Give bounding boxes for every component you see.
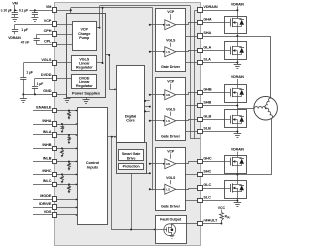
svg-text:nFAULT: nFAULT: [203, 218, 218, 222]
svg-text:PU: PU: [227, 216, 231, 219]
svg-text:SLB: SLB: [203, 126, 211, 130]
svg-text:VCP: VCP: [167, 149, 175, 153]
svg-text:GLC: GLC: [203, 183, 211, 187]
svg-text:SLC: SLC: [203, 195, 211, 199]
svg-text:VCP: VCP: [167, 10, 175, 14]
svg-text:47 nF: 47 nF: [21, 40, 30, 44]
svg-text:GHC: GHC: [203, 156, 212, 160]
svg-text:VGLS: VGLS: [41, 58, 52, 62]
svg-text:Regulator: Regulator: [76, 84, 93, 88]
svg-text:GLB: GLB: [203, 114, 211, 118]
svg-text:INHC: INHC: [42, 169, 51, 173]
svg-text:HS: HS: [166, 93, 170, 97]
svg-text:HS: HS: [166, 23, 170, 27]
svg-text:VCP: VCP: [44, 19, 52, 23]
svg-text:Regulator: Regulator: [76, 65, 93, 69]
svg-text:VDS: VDS: [44, 210, 52, 214]
svg-text:Gate Driver: Gate Driver: [161, 65, 181, 69]
svg-text:Drive: Drive: [127, 156, 136, 160]
svg-text:VGLS: VGLS: [166, 108, 176, 112]
svg-text:VDRAIN: VDRAIN: [231, 75, 245, 79]
svg-text:GHA: GHA: [203, 17, 212, 21]
svg-text:1 µF: 1 µF: [37, 82, 44, 86]
svg-text:VGLS: VGLS: [166, 176, 176, 180]
svg-text:INHA: INHA: [42, 119, 51, 123]
svg-text:MODE: MODE: [40, 194, 52, 198]
svg-text:SHB: SHB: [203, 100, 211, 104]
svg-text:INHB: INHB: [42, 143, 51, 147]
svg-text:LS: LS: [166, 50, 170, 54]
svg-text:Gate Driver: Gate Driver: [161, 135, 181, 139]
svg-text:LS: LS: [166, 119, 170, 123]
svg-text:VM: VM: [12, 1, 18, 5]
svg-text:Pump: Pump: [79, 36, 90, 40]
svg-text:CPH: CPH: [44, 29, 52, 33]
svg-text:SHA: SHA: [203, 31, 211, 35]
svg-text:VDRAIN: VDRAIN: [231, 2, 245, 6]
svg-text:GND: GND: [43, 89, 52, 93]
svg-text:HS: HS: [166, 162, 170, 166]
svg-text:Protection: Protection: [123, 165, 140, 169]
svg-text:≥ 10 µF: ≥ 10 µF: [1, 9, 12, 13]
svg-text:1 µF: 1 µF: [21, 28, 28, 32]
svg-text:Core: Core: [126, 118, 135, 123]
svg-text:Gate Driver: Gate Driver: [161, 204, 181, 208]
svg-text:LS: LS: [166, 188, 170, 192]
svg-text:SLA: SLA: [203, 57, 211, 61]
svg-text:CPL: CPL: [44, 39, 52, 43]
svg-text:INLB: INLB: [43, 156, 52, 160]
svg-text:IDRIVE: IDRIVE: [39, 202, 52, 206]
svg-text:VCP: VCP: [167, 80, 175, 84]
svg-text:VGLS: VGLS: [166, 39, 176, 43]
svg-text:VCC: VCC: [218, 206, 226, 210]
svg-text:SHC: SHC: [203, 169, 211, 173]
svg-text:VDRAIN: VDRAIN: [8, 36, 21, 40]
svg-text:VDRAIN: VDRAIN: [231, 148, 245, 152]
svg-text:Inputs: Inputs: [87, 165, 98, 170]
svg-text:ENABLE: ENABLE: [36, 105, 52, 109]
svg-text:GHB: GHB: [203, 87, 212, 91]
svg-text:GLA: GLA: [203, 45, 211, 49]
svg-text:Power Supplies: Power Supplies: [72, 91, 100, 96]
svg-text:1 µF: 1 µF: [26, 71, 33, 75]
svg-text:VDRAIN: VDRAIN: [203, 5, 217, 9]
svg-text:DVDD: DVDD: [41, 73, 52, 77]
svg-text:INLC: INLC: [43, 179, 52, 183]
svg-text:0.1 µF: 0.1 µF: [19, 9, 28, 13]
svg-text:VM: VM: [46, 5, 52, 9]
svg-text:Fault Output: Fault Output: [160, 217, 182, 221]
svg-text:INLA: INLA: [43, 130, 52, 134]
